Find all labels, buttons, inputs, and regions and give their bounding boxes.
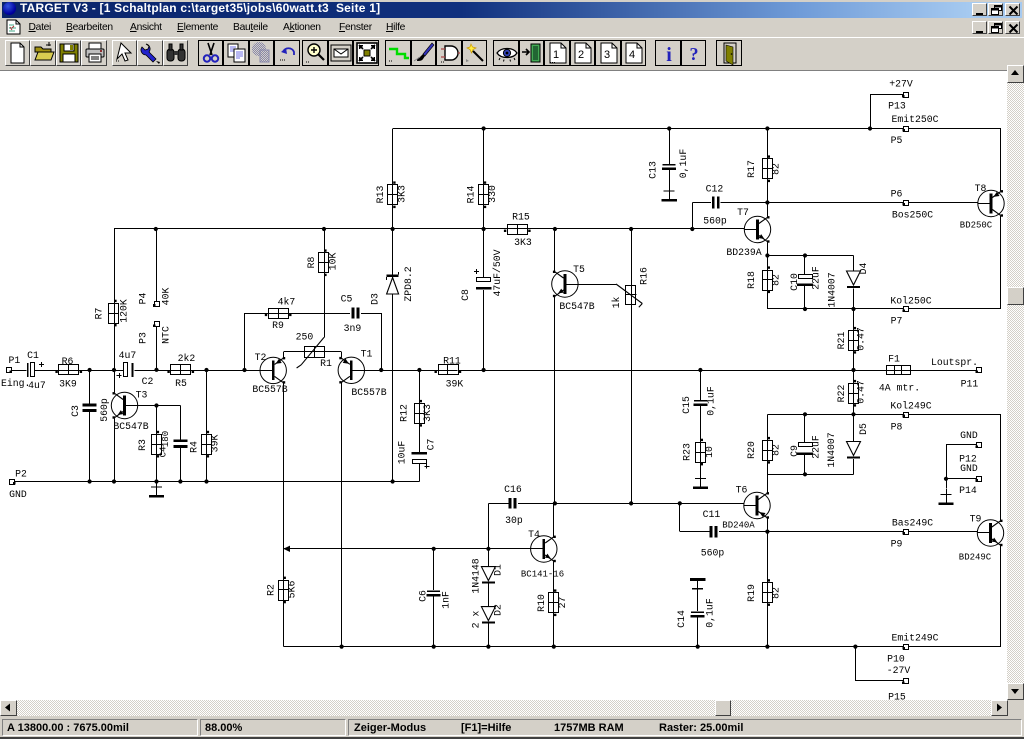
diode D4 1N4007 [853, 256, 855, 272]
capacitor C4 180 [173, 439, 187, 442]
svg-text:47uF/50V: 47uF/50V [492, 249, 503, 296]
capacitor C6 1nF [433, 549, 435, 590]
svg-text:R17: R17 [746, 160, 757, 178]
svg-text:2 x: 2 x [471, 611, 482, 629]
pin P9 Bas249C [904, 530, 909, 535]
resistor R10 27 [549, 593, 559, 613]
pins P12 P14 GND block [977, 443, 982, 448]
svg-text:10uF: 10uF [397, 441, 408, 465]
svg-text:-27V: -27V [887, 665, 911, 676]
resistor R6 3K9 [59, 365, 79, 375]
capacitor C10 22uF [804, 256, 806, 275]
svg-text:BD240A: BD240A [722, 521, 755, 531]
wire bias rail y=229 [114, 228, 745, 230]
svg-text:R20: R20 [746, 441, 757, 459]
svg-text:2k2: 2k2 [178, 353, 196, 364]
resistor R14 330 [483, 129, 485, 186]
wire T1 collector down [341, 382, 343, 647]
svg-text:27: 27 [557, 597, 568, 609]
wire T5 base to trimmer [578, 284, 616, 286]
wire -27V rail (Emit249C) [283, 646, 1001, 648]
svg-text:0.47: 0.47 [856, 380, 867, 404]
svg-text:C9: C9 [789, 445, 800, 457]
transistor T7 BD239A [744, 216, 770, 242]
svg-text:0.47: 0.47 [856, 327, 867, 351]
svg-text:ZPD8.2: ZPD8.2 [403, 266, 414, 301]
svg-text:GND: GND [9, 489, 27, 500]
svg-text:Kol250C: Kol250C [890, 296, 931, 307]
pin P11 Loutspr. [910, 370, 977, 372]
wire T6 collector node [767, 474, 853, 476]
resistor R9 4k7 [269, 309, 289, 319]
svg-text:GND: GND [960, 430, 978, 441]
svg-text:C5: C5 [341, 294, 353, 305]
svg-text:C7: C7 [426, 439, 437, 451]
resistor R2 5K6 [283, 549, 285, 580]
svg-text:P15: P15 [888, 692, 906, 701]
capacitor C11 560p [710, 526, 713, 538]
svg-text:T5: T5 [573, 264, 585, 275]
capacitor C9 22uF [804, 414, 806, 443]
diode D3 ZPD8.2 [392, 229, 394, 278]
wire R9 branch [244, 313, 246, 370]
svg-text:C6: C6 [418, 590, 429, 602]
svg-text:C3: C3 [70, 405, 81, 417]
svg-text:BC557B: BC557B [351, 387, 386, 398]
svg-text:F1: F1 [888, 354, 900, 365]
svg-text:Bos250C: Bos250C [892, 210, 933, 221]
svg-text:R13: R13 [375, 186, 386, 204]
svg-text:R16: R16 [639, 267, 650, 285]
fuse F1 4A [887, 366, 911, 375]
svg-text:P1: P1 [9, 355, 21, 366]
svg-text:10K: 10K [328, 253, 339, 271]
wire T4 collector / T6 base row [488, 503, 508, 505]
svg-text:T9: T9 [970, 514, 982, 525]
svg-text:1N4148: 1N4148 [471, 558, 482, 593]
resistor R13 3K3 [392, 129, 394, 186]
transistor T6 BD240A [744, 492, 770, 518]
svg-text:5K6: 5K6 [287, 581, 298, 599]
svg-text:R15: R15 [512, 212, 530, 223]
svg-text:180: 180 [161, 431, 171, 447]
svg-text:4u7: 4u7 [119, 350, 137, 361]
trimmer R16 1k [631, 229, 633, 286]
wire T1 base row / output row [365, 370, 887, 372]
svg-text:82: 82 [771, 163, 782, 175]
vertical scrollbar [1007, 65, 1024, 700]
ground at R23 [700, 473, 702, 488]
svg-text:BC547B: BC547B [559, 301, 594, 312]
svg-text:R7: R7 [94, 308, 105, 320]
resistor R4 39K [206, 370, 208, 434]
transistor T1 BC557B [338, 357, 364, 383]
resistor R8 10K [324, 229, 326, 253]
svg-text:C12: C12 [706, 184, 724, 195]
capacitor C2 4u7 [124, 363, 128, 377]
status bar [0, 716, 1024, 739]
transistor T4 BC141-16 [531, 536, 557, 562]
svg-text:560p: 560p [701, 548, 725, 559]
wire T7 emitter node [767, 255, 853, 257]
pin P2 GND [10, 480, 15, 485]
resistor R12 3K3 [419, 370, 421, 404]
svg-text:C1: C1 [27, 350, 39, 361]
svg-text:C15: C15 [681, 396, 692, 414]
svg-text:C8: C8 [460, 289, 471, 301]
pin P13 +27V [904, 93, 909, 98]
svg-text:C14: C14 [676, 610, 687, 628]
svg-text:560p: 560p [99, 398, 110, 422]
svg-text:T1: T1 [361, 349, 373, 360]
capacitor C15 0,1uF [700, 370, 702, 400]
svg-text:R12: R12 [399, 404, 410, 422]
svg-text:P9: P9 [891, 539, 903, 550]
svg-text:0,1uF: 0,1uF [678, 149, 689, 179]
pin P6 Bos250C [904, 201, 909, 206]
svg-text:39K: 39K [446, 379, 464, 390]
svg-text:0,1uF: 0,1uF [705, 598, 716, 628]
title bar [2, 2, 1022, 18]
svg-text:4u7: 4u7 [28, 380, 46, 391]
svg-text:BC141-16: BC141-16 [521, 570, 564, 580]
wire NTC column [156, 229, 158, 302]
svg-text:BD239A: BD239A [726, 247, 761, 258]
resistor R22 0.47 [853, 370, 855, 384]
svg-text:BD250C: BD250C [960, 221, 993, 231]
wire Kol249C line [767, 414, 1001, 416]
svg-text:P3: P3 [138, 332, 149, 344]
svg-text:R4: R4 [189, 441, 200, 453]
wire T3 base node [125, 405, 181, 407]
svg-text:P4: P4 [138, 293, 149, 305]
svg-text:BC547B: BC547B [113, 421, 148, 432]
svg-text:R5: R5 [175, 378, 187, 389]
svg-text:22uF: 22uF [811, 266, 822, 290]
resistor R3 180 [156, 406, 158, 435]
svg-text:T2: T2 [255, 352, 267, 363]
capacitor C3 560p [89, 370, 91, 404]
svg-text:P14: P14 [959, 485, 977, 496]
resistor R20 82 [767, 414, 769, 440]
svg-text:C16: C16 [504, 484, 522, 495]
pin P5 Emit250C [904, 127, 909, 132]
ground at R3 [156, 482, 158, 497]
transistor T2 BC557B [260, 357, 286, 383]
svg-text:330: 330 [487, 185, 498, 203]
capacitor C13 0,1uF [669, 129, 671, 164]
svg-text:P10: P10 [887, 654, 905, 665]
wire GND line [14, 481, 419, 483]
svg-text:1nF: 1nF [441, 591, 452, 609]
svg-text:BD249C: BD249C [959, 553, 992, 563]
resistor R5 2k2 [171, 365, 191, 375]
capacitor C7 10uF [412, 452, 428, 454]
wire T2 collector down [283, 382, 285, 549]
svg-text:Emit250C: Emit250C [891, 114, 938, 125]
svg-text:2: 2 [578, 49, 584, 61]
svg-text:C2: C2 [142, 376, 154, 387]
wire +27V rail (Emit250C) [393, 128, 1001, 130]
svg-text:P8: P8 [891, 422, 903, 433]
pin P3 [155, 322, 160, 327]
svg-text:0,1uF: 0,1uF [706, 386, 717, 416]
svg-text:R18: R18 [746, 271, 757, 289]
diodes D1 D2 2x1N4148 [488, 549, 490, 567]
svg-text:40K: 40K [161, 288, 172, 306]
svg-text:82: 82 [771, 587, 782, 599]
svg-text:R22: R22 [836, 385, 847, 403]
svg-text:D1: D1 [493, 564, 504, 576]
svg-text:P6: P6 [891, 189, 903, 200]
pin P4 [155, 302, 160, 307]
svg-text:P11: P11 [961, 379, 979, 390]
svg-text:1N4007: 1N4007 [827, 272, 838, 307]
svg-text:3K9: 3K9 [59, 379, 77, 390]
pin P8 Kol249C [904, 413, 909, 418]
diode D5 1N4007 [853, 414, 855, 441]
capacitor C1 4u7 [27, 363, 29, 377]
svg-text:82: 82 [771, 444, 782, 456]
svg-text:22uF: 22uF [811, 435, 822, 459]
svg-text:C4: C4 [158, 447, 168, 458]
svg-text:560p: 560p [703, 216, 727, 227]
svg-text:D2: D2 [493, 604, 504, 616]
capacitor C12 560p [712, 197, 715, 209]
svg-text:C13: C13 [648, 161, 659, 179]
svg-text:R11: R11 [443, 356, 461, 367]
transistor T3 BC547B [111, 392, 137, 418]
svg-text:T4: T4 [528, 529, 540, 540]
capacitor C16 30p [509, 498, 512, 508]
svg-text:T3: T3 [136, 390, 148, 401]
ground at C13 [669, 186, 671, 201]
svg-text:1: 1 [552, 49, 558, 61]
svg-text:R23: R23 [682, 443, 693, 461]
svg-text:D4: D4 [858, 263, 869, 275]
menu bar [2, 18, 1022, 37]
pin P10 Emit249C [904, 645, 909, 650]
capacitor C5 3n9 [352, 308, 355, 319]
svg-text:T6: T6 [736, 485, 748, 496]
trimmer R1 250 [305, 347, 325, 358]
svg-text:D5: D5 [858, 423, 869, 435]
capacitor C8 47uF/50V [483, 229, 485, 278]
svg-text:?: ? [690, 44, 699, 64]
wire C12 left branch [692, 203, 694, 230]
svg-text:D3: D3 [370, 293, 381, 305]
pin P7 Kol250C [904, 307, 909, 312]
svg-text:R9: R9 [272, 320, 284, 331]
svg-text:R8: R8 [306, 257, 317, 269]
wire left rail corner down to R7 [114, 229, 116, 303]
svg-text:Emit249C: Emit249C [891, 633, 938, 644]
svg-text:3K3: 3K3 [397, 185, 408, 203]
svg-text:R2: R2 [266, 584, 277, 596]
wire Bos250C line [692, 202, 711, 204]
svg-text:250: 250 [296, 332, 314, 343]
svg-text:R21: R21 [836, 332, 847, 350]
svg-text:4A mtr.: 4A mtr. [879, 383, 920, 394]
wire C11 branch [679, 503, 681, 531]
feedback wire to T4 base [284, 548, 531, 550]
svg-text:R1: R1 [320, 358, 332, 369]
resistor R21 0.47 [853, 309, 855, 331]
resistor R19 82 [767, 532, 769, 583]
transistor T5 BC547B [554, 229, 556, 271]
resistor R7 120K [109, 304, 119, 324]
svg-text:39K: 39K [210, 435, 221, 453]
svg-text:P2: P2 [15, 469, 27, 480]
svg-text:Kol249C: Kol249C [890, 401, 931, 412]
svg-text:R6: R6 [62, 356, 74, 367]
svg-text:Eing.: Eing. [1, 378, 30, 389]
svg-text:30p: 30p [505, 515, 523, 526]
svg-text:NTC: NTC [161, 326, 172, 344]
svg-text:3n9: 3n9 [344, 323, 362, 334]
svg-text:T8: T8 [975, 183, 987, 194]
svg-text:R3: R3 [137, 439, 148, 451]
pin P15 -27V [855, 647, 857, 681]
wire +27V pin branch [870, 95, 872, 129]
svg-text:3: 3 [603, 49, 609, 61]
svg-text:C10: C10 [789, 273, 800, 291]
resistor R23 10 [696, 443, 706, 463]
capacitor C14 0,1uF [690, 578, 705, 581]
svg-text:4k7: 4k7 [278, 297, 296, 308]
svg-text:R10: R10 [536, 594, 547, 612]
svg-text:GND: GND [960, 463, 978, 474]
svg-text:1k: 1k [611, 297, 622, 309]
svg-text:3K3: 3K3 [422, 404, 433, 422]
svg-text:+27V: +27V [889, 79, 913, 90]
resistor R11 39K [439, 365, 459, 375]
svg-text:1N4007: 1N4007 [826, 432, 837, 467]
transistor T9 BD249C [1000, 414, 1002, 520]
svg-text:82: 82 [771, 274, 782, 286]
toolbar [0, 37, 1024, 71]
svg-text:T7: T7 [737, 207, 749, 218]
wire input [11, 370, 27, 372]
svg-text:P7: P7 [891, 316, 903, 327]
resistor R17 82 [767, 129, 769, 160]
horizontal scrollbar [0, 700, 1008, 716]
svg-text:10: 10 [704, 446, 715, 458]
svg-text:R19: R19 [746, 584, 757, 602]
svg-text:BC557B: BC557B [252, 384, 287, 395]
svg-text:P13: P13 [888, 101, 906, 112]
svg-text:3K3: 3K3 [514, 237, 532, 248]
wire T2 emitter to R1 [283, 352, 285, 358]
svg-text:Bas249C: Bas249C [892, 518, 933, 529]
svg-text:P5: P5 [891, 135, 903, 146]
svg-text:R14: R14 [466, 186, 477, 204]
svg-text:i: i [666, 44, 672, 65]
svg-text:Loutspr.: Loutspr. [931, 357, 978, 368]
pin P1 Eing. [7, 368, 12, 373]
resistor R18 82 [767, 256, 769, 271]
wire Kol250C line [767, 308, 1001, 310]
svg-text:4: 4 [629, 49, 635, 61]
resistor R15 3K3 [508, 225, 528, 235]
transistor T8 BD250C [1000, 129, 1002, 191]
svg-text:120K: 120K [119, 299, 130, 323]
svg-text:C11: C11 [703, 509, 721, 520]
